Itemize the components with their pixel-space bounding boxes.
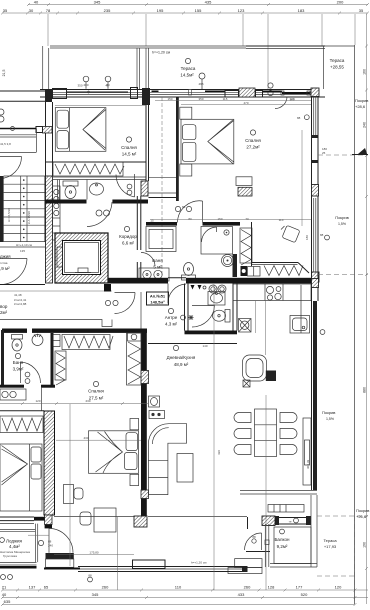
svg-text:27,5 м²: 27,5 м² [89,396,104,401]
svg-text:вор: вор [0,304,8,309]
top exterior wall band with windows [40,90,325,98]
svg-text:+28,55: +28,55 [330,65,344,70]
interior dimension horizontals [54,97,311,555]
right exterior wall [312,96,319,490]
svg-text:430: 430 [83,436,88,440]
svg-text:135: 135 [20,249,25,253]
svg-text:148,5м²: 148,5м² [150,300,165,305]
svg-text:120: 120 [35,399,40,403]
svg-text:260: 260 [102,585,109,590]
svg-text:177: 177 [296,585,303,590]
bedroom3 left closet [55,351,66,385]
svg-text:Балкон: Балкон [274,537,290,542]
bathroom1 toilet [63,181,78,199]
svg-text:Покрив: Покрив [355,98,368,103]
roof dashed lines right [317,155,368,604]
property line above bedroom3 [0,320,112,327]
neighbour wall under stairs [0,284,45,286]
svg-text:+17,93: +17,93 [324,544,337,549]
bath5 toilet [182,263,196,281]
svg-text:195: 195 [157,8,164,13]
bath3 bottom wall [0,385,55,388]
svg-text:27,2м²: 27,2м² [246,145,260,150]
svg-text:Дневна/Кухня: Дневна/Кухня [167,355,196,360]
stove burners [266,286,281,300]
vent shafts column [53,186,61,240]
door arc bedroom2 to terrace [275,97,287,109]
svg-text:230: 230 [85,399,90,403]
svg-text:1,5%: 1,5% [338,222,346,226]
svg-text:110: 110 [175,585,182,590]
entrance marker triangle and circles [191,285,227,293]
bedroom2 door arc [178,201,203,223]
column top-left [45,89,52,102]
svg-text:88: 88 [320,233,324,237]
svg-text:2м²: 2м² [0,310,8,315]
svg-text:35: 35 [3,8,8,13]
svg-text:110: 110 [279,218,284,222]
terrace right edge [323,46,325,89]
terrace label [180,58,196,77]
svg-text:41,48: 41,48 [14,293,22,297]
bath2 toilet [213,310,231,323]
balcony top wall [240,491,317,495]
svg-text:4,4м²: 4,4м² [9,544,20,549]
neighbour room lines top-left [0,109,37,153]
neighbour bed [0,444,42,511]
svg-text:180: 180 [305,235,309,240]
svg-text:Коридор: Коридор [119,234,137,239]
svg-text:Н=+1,10 см: Н=+1,10 см [16,243,32,247]
balcony door lintel [282,92,310,94]
hatched block below dresser [238,187,252,196]
bedroom3 right closet [127,333,142,385]
neighbour door arc above stairs [0,156,22,158]
bedroom2 south wall [146,222,240,226]
bedroom1 bed [55,108,106,152]
living bottom thin line [54,516,247,518]
bedroom1 south wall [45,161,146,163]
svg-text:1,5%: 1,5% [326,417,334,421]
wall bedroom3/living divider [141,330,237,516]
svg-text:635: 635 [4,599,11,604]
hatched pier at corridor top [141,181,148,196]
terrace right label [330,58,345,70]
svg-text:880: 880 [363,387,367,393]
svg-text:Тераса: Тераса [323,538,337,543]
balcony label [274,529,290,549]
window frame bedroom2 left [225,91,239,98]
svg-text:Тераса: Тераса [330,58,345,63]
svg-text:30: 30 [29,8,34,13]
party wall hatched [44,411,55,515]
interior dimension verticals [70,14,302,590]
svg-text:Покрив: Покрив [356,508,369,513]
svg-text:Покрив: Покрив [335,215,348,220]
corridor label [119,226,137,245]
bedroom2 bed [180,107,234,176]
svg-text:520: 520 [301,592,308,597]
axis circles at bedroom2 door [175,205,191,212]
svg-text:80: 80 [188,217,192,221]
svg-text:150: 150 [167,97,172,101]
svg-text:21: 21 [2,585,7,590]
column mid (corridor axis) [142,88,150,105]
bathroom1 door [116,174,135,197]
bottom dimension row B [1,592,368,599]
wall segment + diagonal corner [252,263,309,274]
loggia door [28,528,73,552]
dining chairs right [280,413,297,455]
svg-text:40: 40 [2,592,7,597]
roof edge vertical line right [354,45,356,604]
svg-text:65: 65 [44,585,49,590]
svg-text:3,9м²: 3,9м² [13,367,24,372]
dining table [255,409,277,457]
bedroom2 label [245,130,261,150]
wardrobe corner bedroom2/living [240,228,252,265]
level symbols right edge [297,115,329,335]
oven unit [149,411,165,419]
svg-text:120: 120 [335,585,342,590]
svg-text:9,2м²: 9,2м² [277,544,288,549]
svg-text:128: 128 [268,585,275,590]
svg-text:155: 155 [195,8,202,13]
svg-text:6,6 м²: 6,6 м² [122,241,135,246]
svg-text:те: те [288,520,291,524]
kitchen counter top [233,284,311,333]
bedroom1 label [121,137,137,157]
bath2 sink [208,292,225,306]
svg-text:Кта=2,88: Кта=2,88 [14,302,27,306]
terrace parapet top [50,46,355,49]
bath2 walls [185,284,238,335]
corner column top-right [311,88,319,97]
axis circles on terrace [83,73,273,96]
svg-text:40: 40 [34,0,39,5]
hatched column living bottom [134,516,311,527]
svg-text:21,5: 21,5 [2,70,6,77]
svg-text:Ап.№51: Ап.№51 [150,294,166,299]
bedroom2 dresser [236,177,252,186]
interior dim line [0,399,148,405]
svg-text:78: 78 [46,8,51,13]
staircase [0,176,45,242]
svg-text:Спалня: Спалня [245,138,261,143]
left outer wall bedroom3 [1,330,4,387]
bedroom2 armchair [281,225,300,242]
dashed axis corridor [161,97,163,277]
svg-text:260: 260 [244,585,251,590]
svg-text:Грунтовка: Грунтовка [3,554,17,558]
svg-text:88: 88 [252,535,256,539]
svg-text:183: 183 [298,8,305,13]
svg-text:Антре: Антре [165,315,178,320]
svg-text:14,5м²: 14,5м² [180,73,194,78]
entrance door arc to antre [168,284,186,304]
svg-text:+28,6: +28,6 [355,104,366,109]
svg-text:+26,6: +26,6 [356,514,367,519]
dining chairs left [234,413,251,455]
top dimension line row 1 [27,0,369,6]
svg-text:235: 235 [104,8,111,13]
top extension lines [48,14,355,90]
corridor west wall (nook) [146,105,149,181]
TV cabinet right wall [303,418,311,485]
bath5 shower [201,227,233,255]
bath5 label [152,258,163,270]
svg-text:303,39: 303,39 [306,459,310,469]
bedroom3 top wardrobe [62,335,113,350]
terrace bottom-right label [323,538,337,549]
bottom dimension row A [1,585,368,592]
svg-text:Спалня: Спалня [88,389,104,394]
roof slope arrow top right [352,148,368,155]
washing machine [239,319,252,333]
svg-text:,9 м²: ,9 м² [0,266,10,271]
svg-text:200: 200 [337,0,344,5]
svg-text:14,5 м²: 14,5 м² [122,152,137,157]
svg-text:240: 240 [363,122,367,128]
svg-text:140: 140 [202,344,207,348]
left party wall vertical [36,102,53,176]
svg-text:h=+1,20 см: h=+1,20 см [191,561,206,565]
axis circles antre [105,300,118,305]
right dimension line [363,14,369,604]
svg-text:88: 88 [297,116,301,120]
loggia top interior line [0,530,35,532]
svg-text:К.А 15/30: К.А 15/30 [27,211,31,224]
bottom exit symbol [1,574,93,582]
svg-text:160: 160 [363,69,367,75]
svg-text:435: 435 [205,0,212,5]
svg-text:Н=16,5/30: Н=16,5/30 [7,208,11,222]
corridor door arc bedroom1 [87,202,112,227]
balcony rails [265,495,317,567]
stair landing bottom [0,243,45,253]
bedroom3 bed [89,431,139,474]
kitchen tall cabinet left [149,396,160,407]
bedroom3 desk and chair [64,485,84,504]
svg-text:Баня: Баня [13,360,24,365]
hatched column right mid [312,272,320,282]
loggia label [0,538,30,558]
curved steps [228,559,262,574]
svg-text:350: 350 [198,97,203,101]
elevator shaft [55,233,108,283]
apartment number box [147,292,169,305]
svg-text:137: 137 [29,585,36,590]
bathroom1 sink [90,183,104,195]
antre label [165,308,178,326]
svg-text:120: 120 [289,97,294,101]
neighbour wardrobe [0,416,43,433]
living room label [167,345,196,367]
bottom wall with windows [44,560,248,572]
loggia rails [0,563,37,569]
stair right hatched wall [46,176,53,283]
L wall loggia top [0,516,34,518]
svg-text:h=+1,20 см: h=+1,20 см [152,51,171,55]
antre door arc 2 [104,284,141,330]
small table and chair [80,508,116,532]
bedroom3 nightstand [130,419,139,430]
bedroom3 label [88,381,104,400]
main horizontal wall y=280 [108,278,311,284]
horizontal closet under wall [264,266,303,276]
top dimension line row 2 [1,8,369,15]
bath5 washbasin [139,268,169,281]
bedroom3 shelf boxes [53,335,60,347]
kitchen sink right wall [290,316,310,334]
bath5 closet [146,227,176,252]
bedroom1 wardrobe [53,162,124,176]
svg-text:25: 25 [322,151,326,155]
svg-text:Покрив: Покрив [322,410,335,415]
svg-text:15: 15 [150,219,154,223]
svg-text:70: 70 [245,217,249,221]
bath5 door [141,252,155,265]
svg-text:345: 345 [94,0,101,5]
hatched pier top [239,88,255,97]
kitchen island [243,355,277,387]
loggia step [46,553,74,567]
window frame bedroom1 [53,89,67,99]
bath3 label [13,353,24,371]
svg-text:470: 470 [243,101,248,105]
svg-text:175,80: 175,80 [89,551,99,555]
svg-text:150: 150 [217,217,222,221]
svg-text:240: 240 [48,544,53,548]
svg-text:Лоджия: Лоджия [6,539,23,544]
bedroom2 west wall [176,97,179,201]
svg-text:41,5 3,8: 41,5 3,8 [0,142,11,146]
bottom dimension row C [1,599,357,606]
svg-text:48,9 м²: 48,9 м² [174,362,189,367]
svg-text:Тераса: Тераса [181,66,196,71]
wall bedroom3 top [2,329,147,333]
coffee table [177,454,193,483]
svg-text:345: 345 [92,592,99,597]
svg-text:123: 123 [238,8,245,13]
corner sofa [148,424,186,495]
window frame bedroom2 right [256,91,263,98]
neighbour below: bath [0,389,44,411]
svg-text:Спалня: Спалня [121,145,137,150]
top wall left extension (neighbour) [0,91,52,101]
svg-text:тства: тства [0,261,8,265]
planter [268,505,304,513]
balcony door arc [245,517,271,552]
bath2 door [192,305,215,307]
svg-text:433: 433 [238,592,245,597]
roof labels right [322,98,369,519]
svg-text:88: 88 [182,205,186,209]
svg-text:40: 40 [105,84,109,88]
svg-text:115: 115 [223,97,228,101]
corridor east wall [137,196,141,283]
terrace divider wall [137,48,149,89]
neighbour door arc to corridor [0,259,27,285]
left edge rotated labels [0,70,11,146]
svg-text:465: 465 [198,82,203,86]
svg-text:200: 200 [83,83,88,87]
neighbour corridor label [0,254,27,315]
bath3 door [21,362,41,383]
svg-text:350: 350 [77,84,82,88]
bath3 fixtures [12,334,44,351]
svg-text:190: 190 [363,542,367,548]
svg-text:430: 430 [217,450,221,455]
svg-text:4,3 м²: 4,3 м² [165,322,178,327]
bathroom1 walls [45,177,148,204]
svg-text:35: 35 [359,8,364,13]
